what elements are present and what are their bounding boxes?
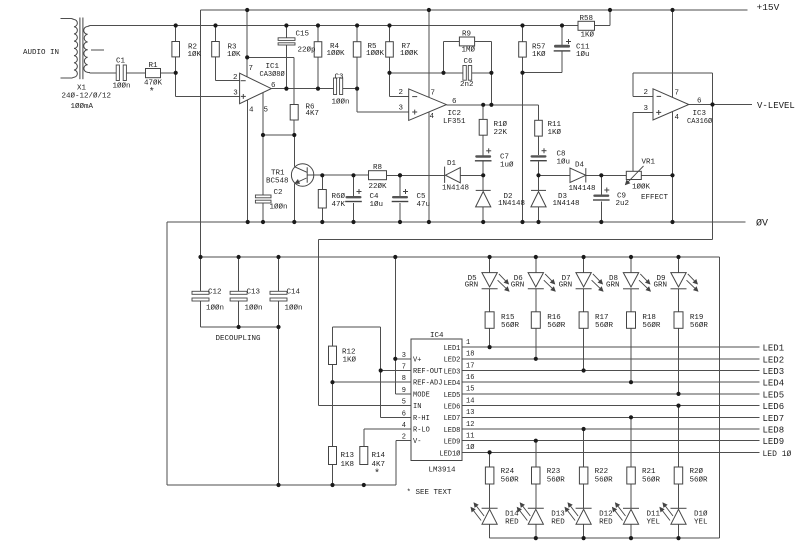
svg-text:X1: X1	[77, 85, 87, 93]
svg-text:ØV: ØV	[756, 218, 768, 230]
svg-text:1MØ: 1MØ	[462, 46, 476, 55]
svg-text:LM3914: LM3914	[429, 467, 457, 475]
svg-text:1uØ: 1uØ	[500, 161, 514, 170]
svg-text:R19: R19	[690, 314, 704, 322]
svg-text:1Øu: 1Øu	[557, 158, 571, 167]
svg-text:17: 17	[466, 362, 474, 370]
svg-text:GRN: GRN	[465, 281, 479, 289]
svg-text:C12: C12	[208, 289, 222, 297]
svg-text:R12: R12	[342, 349, 356, 357]
svg-text:D12: D12	[599, 510, 613, 518]
svg-text:3: 3	[644, 105, 649, 113]
svg-text:LED3: LED3	[444, 368, 461, 376]
svg-text:1N4148: 1N4148	[553, 200, 580, 208]
svg-text:R18: R18	[642, 314, 656, 322]
svg-text:47u: 47u	[417, 201, 431, 209]
svg-text:4K7: 4K7	[306, 110, 320, 118]
svg-text:1ØK: 1ØK	[227, 50, 241, 59]
svg-text:IC4: IC4	[430, 332, 444, 340]
svg-text:22K: 22K	[494, 129, 508, 137]
svg-text:REF-ADJ: REF-ADJ	[413, 380, 442, 388]
svg-text:R2Ø: R2Ø	[690, 467, 704, 476]
svg-text:IC1: IC1	[266, 63, 280, 71]
svg-text:13: 13	[466, 409, 474, 417]
svg-text:6: 6	[402, 410, 406, 418]
svg-text:V-LEVEL: V-LEVEL	[757, 101, 795, 111]
svg-text:5: 5	[264, 107, 269, 115]
svg-text:LED5: LED5	[763, 390, 785, 400]
svg-text:8: 8	[402, 375, 406, 383]
svg-text:LED9: LED9	[763, 437, 785, 447]
svg-text:R-HI: R-HI	[413, 415, 430, 423]
svg-text:LED4: LED4	[444, 380, 461, 388]
svg-text:*: *	[374, 468, 380, 480]
svg-text:1Øu: 1Øu	[370, 200, 384, 209]
svg-text:GRN: GRN	[654, 281, 668, 289]
svg-text:V-: V-	[413, 438, 421, 446]
svg-text:3: 3	[399, 105, 404, 113]
svg-text:RED: RED	[505, 519, 519, 527]
svg-text:LED4: LED4	[763, 379, 785, 389]
svg-text:R16: R16	[547, 314, 561, 322]
svg-text:LF351: LF351	[443, 118, 466, 126]
svg-text:4: 4	[249, 107, 254, 115]
svg-text:R14: R14	[372, 452, 386, 460]
svg-text:1KØ: 1KØ	[548, 128, 562, 137]
svg-text:3: 3	[233, 90, 238, 98]
svg-text:16: 16	[466, 374, 474, 382]
svg-text:2: 2	[644, 89, 649, 97]
svg-text:22Øp: 22Øp	[298, 46, 316, 55]
svg-text:TR1: TR1	[271, 170, 285, 178]
svg-text:D1: D1	[447, 160, 457, 168]
svg-text:RED: RED	[599, 519, 613, 527]
svg-text:IC3: IC3	[693, 110, 707, 118]
svg-text:1ØØmA: 1ØØmA	[71, 102, 94, 111]
svg-text:D13: D13	[551, 510, 565, 518]
svg-text:1ØØK: 1ØØK	[327, 49, 346, 58]
svg-text:* SEE TEXT: * SEE TEXT	[407, 489, 453, 497]
svg-text:R6Ø: R6Ø	[332, 192, 346, 201]
svg-text:1Øu: 1Øu	[576, 50, 590, 59]
svg-text:C6: C6	[464, 58, 474, 66]
svg-text:7: 7	[675, 90, 680, 98]
svg-text:R11: R11	[548, 121, 562, 129]
svg-text:R17: R17	[595, 314, 609, 322]
svg-text:C8: C8	[557, 151, 566, 159]
svg-text:MODE: MODE	[413, 391, 430, 399]
svg-text:9: 9	[402, 387, 406, 395]
svg-text:LED3: LED3	[763, 367, 785, 377]
svg-text:4: 4	[430, 113, 435, 121]
svg-text:REF-OUT: REF-OUT	[413, 368, 442, 376]
svg-text:6: 6	[271, 82, 276, 90]
svg-text:LED2: LED2	[444, 357, 461, 365]
svg-text:LED1: LED1	[763, 344, 785, 354]
svg-text:7: 7	[249, 65, 254, 73]
svg-text:56ØR: 56ØR	[690, 321, 709, 330]
svg-text:56ØR: 56ØR	[547, 475, 566, 484]
svg-text:DECOUPLING: DECOUPLING	[216, 335, 262, 343]
svg-text:EFFECT: EFFECT	[641, 194, 669, 202]
svg-text:LED6: LED6	[444, 404, 461, 412]
svg-text:R23: R23	[547, 468, 561, 476]
svg-text:1: 1	[466, 339, 470, 347]
svg-text:56ØR: 56ØR	[595, 475, 614, 484]
svg-text:56ØR: 56ØR	[501, 321, 520, 330]
svg-text:CA316Ø: CA316Ø	[687, 117, 712, 126]
svg-text:LED5: LED5	[444, 392, 461, 400]
svg-text:D4: D4	[575, 162, 585, 170]
svg-text:3: 3	[402, 352, 406, 360]
svg-text:GRN: GRN	[606, 281, 620, 289]
svg-text:RED: RED	[551, 519, 565, 527]
svg-text:1N4148: 1N4148	[569, 185, 596, 193]
svg-text:BC548: BC548	[266, 178, 289, 186]
svg-text:C5: C5	[417, 193, 427, 201]
svg-text:2: 2	[402, 434, 406, 442]
svg-text:R21: R21	[642, 468, 656, 476]
svg-text:6: 6	[697, 98, 702, 106]
svg-text:C1: C1	[116, 58, 126, 66]
svg-text:R58: R58	[580, 15, 594, 23]
svg-text:C2: C2	[274, 189, 283, 197]
svg-text:LED7: LED7	[763, 414, 785, 424]
svg-text:IN: IN	[413, 403, 421, 411]
svg-text:R22: R22	[595, 468, 609, 476]
svg-text:YEL: YEL	[694, 519, 708, 527]
svg-text:V+: V+	[413, 356, 421, 364]
svg-text:*: *	[149, 87, 155, 99]
svg-text:7: 7	[431, 90, 436, 98]
svg-text:56ØR: 56ØR	[642, 321, 661, 330]
svg-text:11: 11	[466, 433, 474, 441]
svg-text:R1Ø: R1Ø	[494, 120, 508, 129]
svg-text:1ØØn: 1ØØn	[245, 304, 263, 313]
svg-text:1N4148: 1N4148	[498, 200, 525, 208]
svg-text:2: 2	[233, 74, 238, 82]
svg-text:GRN: GRN	[511, 281, 525, 289]
svg-text:56ØR: 56ØR	[501, 475, 520, 484]
svg-text:LED9: LED9	[444, 439, 461, 447]
svg-text:LED1Ø: LED1Ø	[439, 449, 460, 458]
svg-text:1ØØn: 1ØØn	[332, 98, 350, 107]
svg-text:18: 18	[466, 351, 474, 359]
svg-text:GRN: GRN	[559, 281, 573, 289]
svg-text:LED7: LED7	[444, 415, 461, 423]
svg-text:D1Ø: D1Ø	[694, 509, 708, 518]
svg-text:5: 5	[402, 399, 406, 407]
svg-text:D11: D11	[647, 510, 661, 518]
svg-text:LED1: LED1	[444, 345, 461, 353]
svg-text:1N4148: 1N4148	[442, 184, 469, 192]
svg-text:4K7: 4K7	[372, 461, 386, 469]
svg-text:4: 4	[675, 114, 680, 122]
svg-text:C7: C7	[500, 154, 509, 162]
svg-text:LED 1Ø: LED 1Ø	[763, 450, 792, 459]
svg-text:1K8: 1K8	[341, 461, 355, 469]
svg-text:1ØØn: 1ØØn	[270, 203, 288, 212]
svg-text:YEL: YEL	[647, 519, 661, 527]
svg-text:2: 2	[399, 89, 404, 97]
svg-text:+15V: +15V	[757, 2, 780, 13]
svg-text:R24: R24	[501, 468, 515, 476]
svg-text:R8: R8	[373, 164, 382, 172]
svg-text:1KØ: 1KØ	[581, 31, 595, 40]
svg-text:1ØK: 1ØK	[188, 50, 202, 59]
svg-text:IC2: IC2	[448, 110, 462, 118]
svg-text:C14: C14	[287, 289, 301, 297]
svg-text:LED8: LED8	[763, 426, 785, 436]
svg-text:R9: R9	[462, 31, 471, 39]
svg-text:C15: C15	[296, 31, 310, 39]
svg-text:R15: R15	[501, 314, 515, 322]
svg-text:56ØR: 56ØR	[690, 475, 709, 484]
svg-text:7: 7	[402, 364, 406, 372]
svg-text:LED8: LED8	[444, 427, 461, 435]
svg-text:47K: 47K	[332, 201, 346, 209]
svg-text:2u2: 2u2	[616, 200, 630, 208]
svg-text:1Ø: 1Ø	[466, 443, 474, 452]
svg-text:1ØØn: 1ØØn	[206, 304, 224, 313]
svg-text:1ØØK: 1ØØK	[632, 183, 651, 192]
svg-text:12: 12	[466, 421, 474, 429]
svg-text:VR1: VR1	[642, 159, 656, 167]
svg-text:CA3Ø8Ø: CA3Ø8Ø	[260, 70, 285, 79]
svg-text:C3: C3	[335, 74, 345, 82]
svg-text:22ØK: 22ØK	[369, 182, 388, 191]
svg-text:1KØ: 1KØ	[532, 50, 546, 59]
svg-text:15: 15	[466, 386, 474, 394]
svg-text:LED2: LED2	[763, 355, 785, 365]
svg-text:14: 14	[466, 397, 474, 405]
svg-text:56ØR: 56ØR	[642, 475, 661, 484]
svg-text:AUDIO IN: AUDIO IN	[23, 49, 59, 57]
svg-text:R13: R13	[341, 452, 355, 460]
svg-text:6: 6	[452, 98, 457, 106]
svg-text:R1: R1	[149, 62, 159, 70]
svg-text:1ØØn: 1ØØn	[285, 304, 303, 313]
svg-text:56ØR: 56ØR	[595, 321, 614, 330]
svg-text:C13: C13	[247, 289, 261, 297]
svg-text:1ØØn: 1ØØn	[113, 82, 131, 91]
svg-text:LED6: LED6	[763, 402, 785, 412]
svg-text:4: 4	[402, 422, 406, 430]
svg-text:D14: D14	[505, 510, 519, 518]
svg-text:47ØK: 47ØK	[144, 79, 163, 88]
svg-text:24Ø-12/Ø/12: 24Ø-12/Ø/12	[62, 92, 112, 101]
svg-text:C4: C4	[370, 193, 380, 201]
svg-text:56ØR: 56ØR	[547, 321, 566, 330]
svg-text:1ØØK: 1ØØK	[400, 49, 419, 58]
svg-text:2n2: 2n2	[460, 81, 474, 89]
svg-text:1ØØK: 1ØØK	[366, 49, 385, 58]
svg-text:1KØ: 1KØ	[343, 356, 357, 365]
svg-text:R-LO: R-LO	[413, 427, 430, 435]
